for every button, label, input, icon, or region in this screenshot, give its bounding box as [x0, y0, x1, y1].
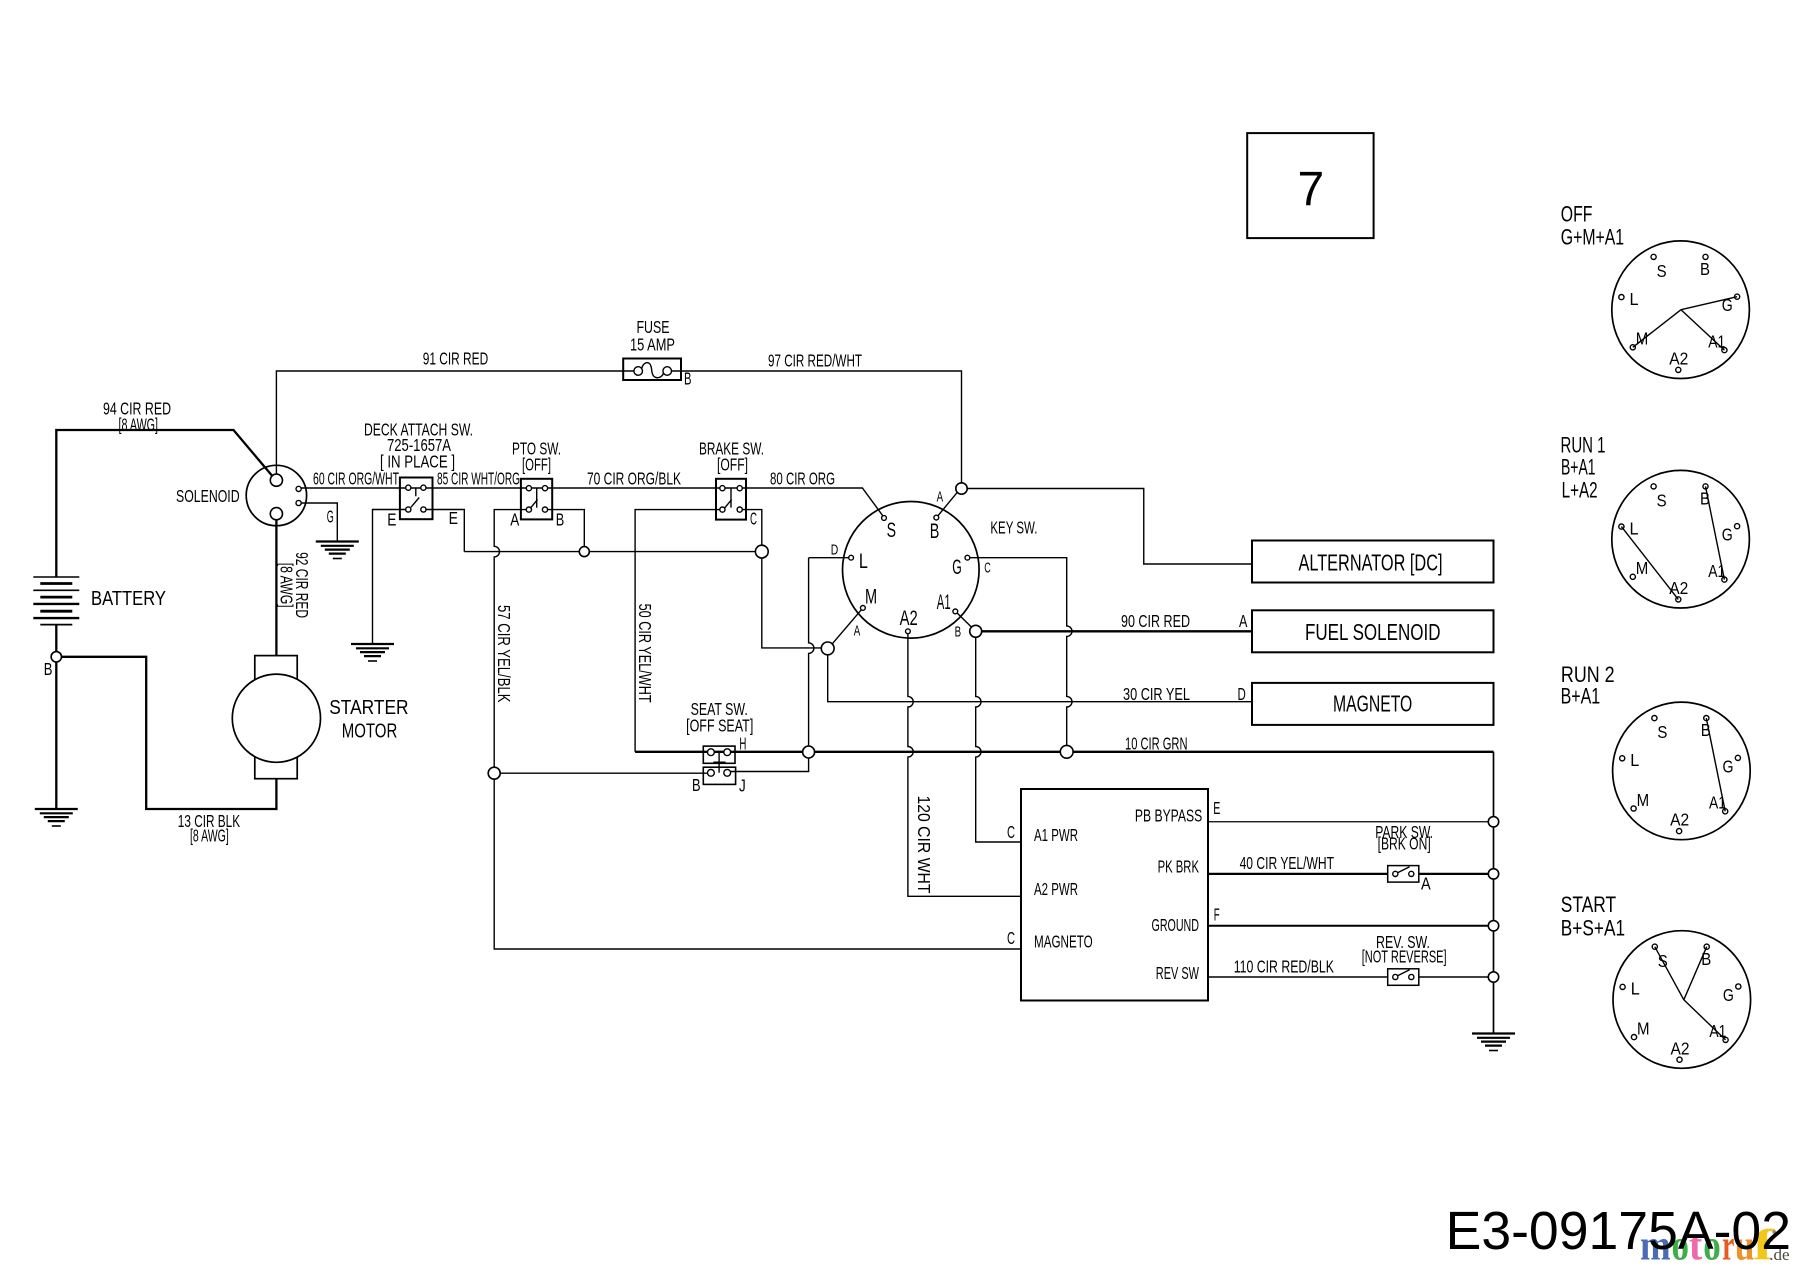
- svg-text:A: A: [1239, 611, 1247, 631]
- svg-text:[NOT REVERSE]: [NOT REVERSE]: [1362, 946, 1447, 966]
- svg-text:S: S: [1658, 951, 1668, 971]
- svg-text:10 CIR GRN: 10 CIR GRN: [1125, 734, 1188, 754]
- svg-text:A2 PWR: A2 PWR: [1034, 879, 1078, 899]
- svg-text:110 CIR RED/BLK: 110 CIR RED/BLK: [1234, 956, 1334, 976]
- svg-text:B: B: [1700, 259, 1710, 279]
- svg-text:A: A: [937, 489, 944, 506]
- svg-text:B: B: [692, 775, 701, 795]
- svg-text:L: L: [859, 550, 868, 573]
- svg-text:[OFF]: [OFF]: [522, 455, 551, 475]
- svg-text:97 CIR RED/WHT: 97 CIR RED/WHT: [768, 351, 862, 371]
- svg-text:PB BYPASS: PB BYPASS: [1135, 806, 1202, 826]
- svg-text:C: C: [984, 559, 991, 576]
- svg-text:MAGNETO: MAGNETO: [1333, 691, 1412, 717]
- svg-text:120 CIR WHT: 120 CIR WHT: [914, 796, 934, 894]
- svg-text:B: B: [1701, 949, 1711, 969]
- svg-text:B: B: [1701, 720, 1711, 740]
- svg-text:S: S: [1657, 491, 1667, 511]
- svg-text:A2: A2: [1669, 349, 1688, 369]
- svg-text:[OFF SEAT]: [OFF SEAT]: [686, 716, 753, 736]
- svg-text:D: D: [1238, 684, 1246, 704]
- svg-text:M: M: [1636, 329, 1649, 349]
- svg-text:A2: A2: [1669, 578, 1688, 598]
- svg-text:15 AMP: 15 AMP: [630, 335, 675, 355]
- svg-text:B: B: [44, 659, 53, 679]
- svg-text:B: B: [955, 624, 962, 641]
- svg-text:A2: A2: [1670, 810, 1689, 830]
- svg-text:G: G: [1723, 985, 1734, 1005]
- svg-text:G: G: [1722, 295, 1733, 315]
- svg-text:B: B: [684, 369, 692, 389]
- svg-text:BATTERY: BATTERY: [91, 587, 166, 610]
- svg-text:G: G: [1722, 525, 1733, 545]
- svg-text:B: B: [556, 510, 565, 530]
- svg-text:L+A2: L+A2: [1562, 477, 1598, 502]
- svg-text:E: E: [1213, 798, 1220, 818]
- svg-text:B: B: [930, 520, 940, 543]
- svg-text:70 CIR ORG/BLK: 70 CIR ORG/BLK: [587, 469, 681, 489]
- svg-text:SOLENOID: SOLENOID: [176, 486, 240, 506]
- svg-text:S: S: [887, 519, 896, 542]
- svg-text:B: B: [1700, 489, 1710, 509]
- svg-text:[BRK ON]: [BRK ON]: [1378, 834, 1431, 854]
- svg-text:MOTOR: MOTOR: [342, 720, 398, 743]
- svg-text:40 CIR YEL/WHT: 40 CIR YEL/WHT: [1240, 853, 1334, 873]
- svg-text:E3-09175A-02: E3-09175A-02: [1446, 1202, 1791, 1261]
- svg-text:G: G: [952, 556, 962, 579]
- svg-text:M: M: [1637, 1018, 1650, 1038]
- svg-text:A1: A1: [1709, 793, 1726, 813]
- svg-text:A: A: [1421, 874, 1431, 894]
- svg-text:S: S: [1657, 722, 1667, 742]
- svg-text:C: C: [1007, 822, 1015, 842]
- svg-text:60 CIR ORG/WHT: 60 CIR ORG/WHT: [313, 469, 399, 489]
- svg-text:L: L: [1630, 289, 1639, 309]
- svg-text:30 CIR YEL: 30 CIR YEL: [1123, 684, 1190, 704]
- svg-text:[OFF]: [OFF]: [717, 455, 748, 475]
- svg-text:A1 PWR: A1 PWR: [1034, 825, 1078, 845]
- svg-text:STARTER: STARTER: [329, 696, 408, 719]
- svg-text:[8 AWG]: [8 AWG]: [119, 415, 159, 435]
- svg-text:M: M: [865, 586, 877, 609]
- svg-text:A1: A1: [1708, 561, 1725, 581]
- svg-text:REV SW: REV SW: [1156, 963, 1199, 983]
- svg-text:A2: A2: [1671, 1038, 1690, 1058]
- svg-text:M: M: [1637, 790, 1650, 810]
- svg-text:M: M: [1636, 558, 1649, 578]
- svg-text:85 CIR WHT/ORG: 85 CIR WHT/ORG: [437, 469, 520, 489]
- svg-text:A1: A1: [937, 591, 951, 614]
- svg-text:KEY SW.: KEY SW.: [990, 518, 1037, 538]
- svg-text:7: 7: [1297, 163, 1324, 216]
- svg-text:GROUND: GROUND: [1152, 915, 1200, 935]
- svg-text:C: C: [1007, 928, 1015, 948]
- svg-text:L: L: [1630, 750, 1639, 770]
- svg-text:A1: A1: [1708, 331, 1725, 351]
- svg-text:A: A: [854, 623, 861, 640]
- svg-text:ALTERNATOR [DC]: ALTERNATOR [DC]: [1299, 550, 1443, 576]
- svg-text:E: E: [449, 508, 458, 528]
- svg-text:J: J: [739, 776, 746, 796]
- svg-text:H: H: [739, 734, 746, 754]
- svg-text:E: E: [387, 510, 396, 530]
- svg-text:S: S: [1657, 261, 1667, 281]
- svg-text:91 CIR RED: 91 CIR RED: [423, 349, 489, 369]
- svg-text:L: L: [1630, 518, 1639, 538]
- svg-text:A: A: [510, 510, 519, 530]
- svg-text:OFF: OFF: [1561, 202, 1593, 227]
- svg-text:80 CIR ORG: 80 CIR ORG: [770, 469, 835, 489]
- svg-text:50 CIR YEL/WHT: 50 CIR YEL/WHT: [635, 604, 655, 703]
- svg-text:[8 AWG]: [8 AWG]: [190, 826, 229, 846]
- svg-text:G: G: [327, 507, 334, 527]
- svg-text:D: D: [831, 541, 839, 558]
- svg-text:90 CIR RED: 90 CIR RED: [1121, 611, 1190, 631]
- svg-text:L: L: [1631, 979, 1640, 999]
- svg-text:G: G: [1723, 756, 1734, 776]
- svg-text:FUEL SOLENOID: FUEL SOLENOID: [1305, 619, 1441, 645]
- svg-text:B+A1: B+A1: [1561, 455, 1596, 480]
- svg-text:57 CIR YEL/BLK: 57 CIR YEL/BLK: [494, 605, 514, 703]
- svg-text:G+M+A1: G+M+A1: [1561, 224, 1624, 249]
- svg-text:B+A1: B+A1: [1561, 683, 1601, 708]
- svg-text:F: F: [1214, 904, 1220, 924]
- svg-text:A1: A1: [1709, 1021, 1726, 1041]
- svg-text:C: C: [750, 509, 757, 529]
- svg-text:PK BRK: PK BRK: [1158, 857, 1199, 877]
- svg-text:A2: A2: [900, 607, 918, 630]
- svg-text:MAGNETO: MAGNETO: [1034, 932, 1093, 952]
- svg-text:[8 AWG]: [8 AWG]: [277, 563, 297, 608]
- svg-text:START: START: [1561, 892, 1616, 917]
- svg-text:B+S+A1: B+S+A1: [1561, 916, 1625, 941]
